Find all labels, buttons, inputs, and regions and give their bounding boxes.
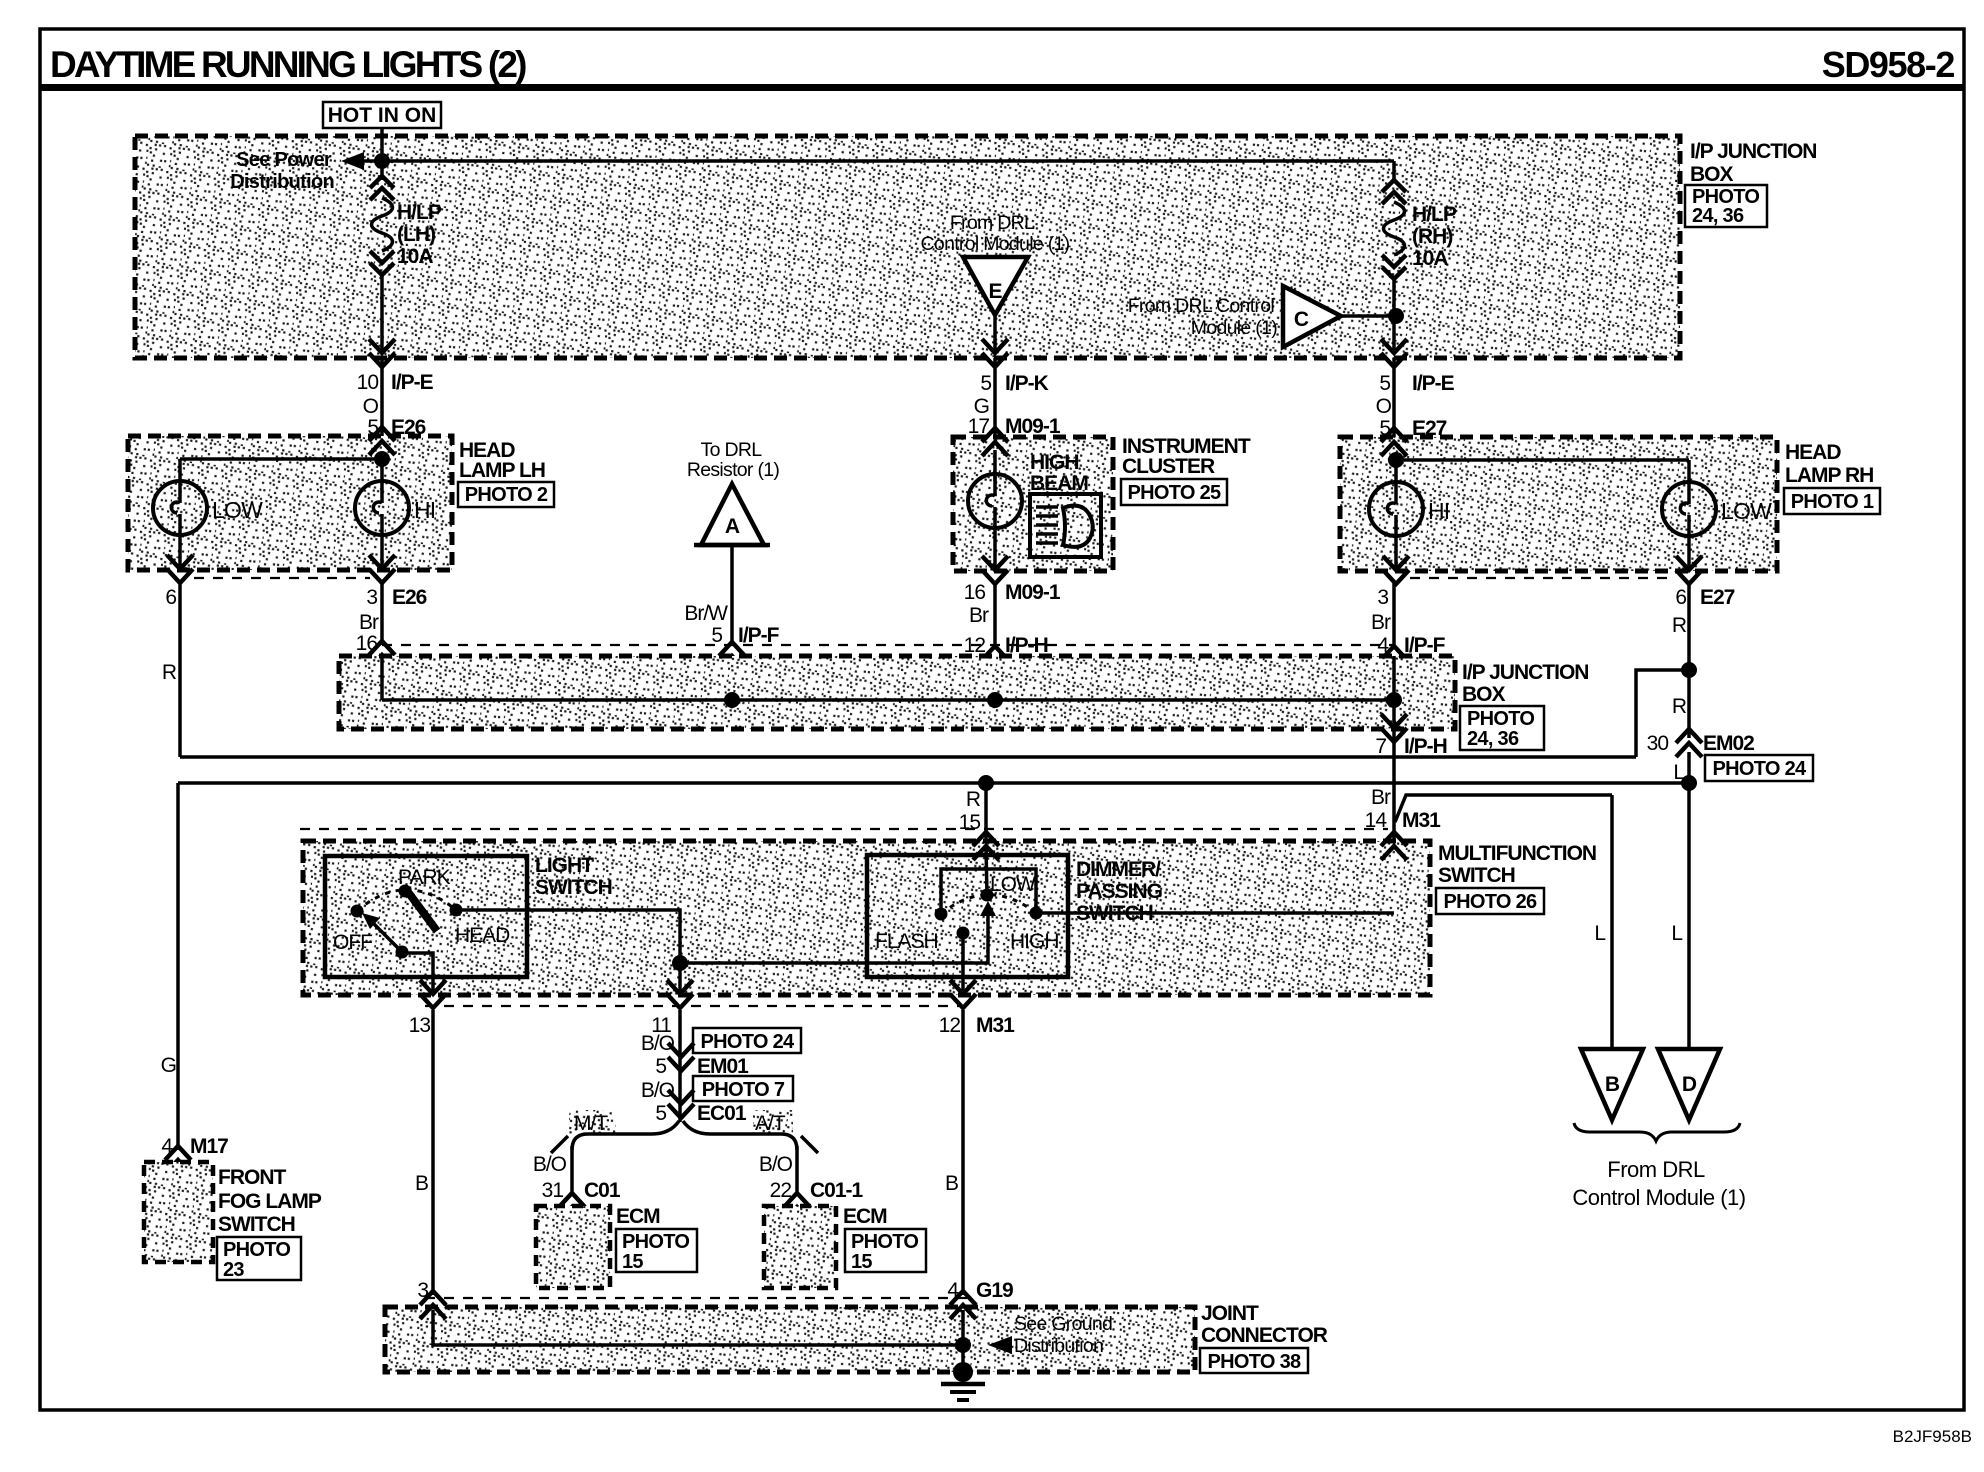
- svg-text:OFF: OFF: [333, 931, 372, 954]
- svg-text:LOW: LOW: [212, 497, 263, 523]
- svg-text:FOG LAMP: FOG LAMP: [218, 1190, 322, 1213]
- svg-text:Br: Br: [1371, 611, 1391, 634]
- svg-text:I/P-E: I/P-E: [391, 371, 434, 394]
- svg-text:B/O: B/O: [759, 1153, 793, 1176]
- svg-text:PHOTO 38: PHOTO 38: [1208, 1351, 1302, 1373]
- svg-text:M31: M31: [976, 1014, 1015, 1037]
- svg-text:HEAD: HEAD: [455, 924, 510, 947]
- svg-text:PASSING: PASSING: [1076, 880, 1163, 903]
- svg-text:(LH): (LH): [397, 223, 435, 246]
- svg-text:LIGHT: LIGHT: [535, 854, 594, 877]
- svg-text:5: 5: [980, 372, 991, 395]
- svg-text:PHOTO: PHOTO: [851, 1231, 918, 1253]
- svg-text:PHOTO 24: PHOTO 24: [1713, 758, 1808, 780]
- svg-text:Br: Br: [1371, 786, 1391, 809]
- svg-text:PARK: PARK: [398, 866, 451, 889]
- svg-text:30: 30: [1647, 732, 1669, 755]
- svg-text:24, 36: 24, 36: [1692, 205, 1744, 227]
- svg-text:EM02: EM02: [1703, 732, 1754, 755]
- svg-text:DIMMER/: DIMMER/: [1076, 858, 1161, 881]
- svg-text:PHOTO 25: PHOTO 25: [1128, 482, 1222, 504]
- svg-text:B2JF958B: B2JF958B: [1893, 1427, 1972, 1446]
- svg-text:BEAM: BEAM: [1030, 472, 1088, 495]
- svg-text:FLASH: FLASH: [875, 930, 938, 953]
- svg-text:Distribution: Distribution: [1014, 1335, 1103, 1357]
- svg-text:(RH): (RH): [1412, 225, 1452, 248]
- svg-text:PHOTO: PHOTO: [622, 1231, 689, 1253]
- svg-text:See Power: See Power: [236, 149, 332, 171]
- svg-text:SWITCH: SWITCH: [1438, 864, 1515, 887]
- svg-text:6: 6: [1675, 586, 1686, 609]
- svg-text:C: C: [1294, 308, 1309, 331]
- svg-text:G: G: [161, 1054, 176, 1077]
- svg-text:Control Module (1): Control Module (1): [1572, 1185, 1745, 1210]
- svg-text:PHOTO 26: PHOTO 26: [1444, 891, 1538, 913]
- svg-text:Br: Br: [359, 611, 379, 634]
- svg-text:I/P-H: I/P-H: [1404, 735, 1447, 758]
- svg-text:6: 6: [165, 586, 176, 609]
- svg-text:PHOTO: PHOTO: [1467, 708, 1534, 730]
- svg-text:From DRL: From DRL: [1607, 1157, 1705, 1182]
- svg-text:5: 5: [655, 1102, 666, 1125]
- svg-text:Module (1): Module (1): [1191, 317, 1277, 339]
- svg-text:M31: M31: [1402, 809, 1441, 832]
- svg-text:R: R: [966, 788, 981, 811]
- svg-text:24, 36: 24, 36: [1467, 728, 1519, 750]
- svg-text:M/T: M/T: [574, 1112, 608, 1135]
- svg-text:CONNECTOR: CONNECTOR: [1201, 1324, 1328, 1347]
- svg-text:R: R: [1672, 614, 1687, 637]
- svg-text:B: B: [945, 1172, 958, 1195]
- svg-text:H/LP: H/LP: [397, 201, 442, 224]
- svg-text:22: 22: [770, 1179, 792, 1202]
- svg-text:12: 12: [939, 1014, 961, 1037]
- svg-text:SWITCH: SWITCH: [535, 876, 612, 899]
- svg-text:B/O: B/O: [533, 1153, 567, 1176]
- svg-text:O: O: [363, 395, 379, 418]
- svg-text:ECM: ECM: [616, 1205, 660, 1228]
- svg-text:C01: C01: [584, 1179, 621, 1202]
- svg-text:3: 3: [1377, 586, 1388, 609]
- svg-text:ECM: ECM: [843, 1205, 887, 1228]
- svg-text:C01-1: C01-1: [810, 1179, 864, 1202]
- svg-text:SD958-2: SD958-2: [1822, 44, 1955, 85]
- svg-text:CLUSTER: CLUSTER: [1122, 455, 1215, 478]
- svg-text:B: B: [415, 1172, 428, 1195]
- svg-text:To DRL: To DRL: [701, 439, 763, 461]
- svg-text:BOX: BOX: [1462, 683, 1506, 706]
- svg-text:10A: 10A: [1412, 247, 1448, 270]
- svg-text:L: L: [1594, 922, 1605, 945]
- svg-text:B: B: [1605, 1073, 1620, 1096]
- svg-text:LAMP RH: LAMP RH: [1785, 464, 1873, 487]
- svg-text:PHOTO 1: PHOTO 1: [1791, 491, 1874, 513]
- svg-text:LAMP LH: LAMP LH: [459, 459, 545, 482]
- svg-text:HI: HI: [1428, 498, 1449, 524]
- svg-text:EC01: EC01: [697, 1102, 747, 1125]
- svg-text:E26: E26: [392, 586, 427, 609]
- svg-text:From DRL Control: From DRL Control: [1128, 295, 1275, 317]
- svg-text:D: D: [1682, 1073, 1697, 1096]
- svg-text:PHOTO 2: PHOTO 2: [465, 484, 548, 506]
- svg-text:23: 23: [223, 1259, 244, 1281]
- svg-text:13: 13: [409, 1014, 431, 1037]
- svg-text:L: L: [1671, 922, 1682, 945]
- svg-text:MULTIFUNCTION: MULTIFUNCTION: [1438, 842, 1596, 865]
- svg-text:A: A: [725, 515, 740, 538]
- svg-text:DAYTIME RUNNING LIGHTS (2): DAYTIME RUNNING LIGHTS (2): [50, 44, 526, 85]
- svg-text:HIGH: HIGH: [1010, 930, 1059, 953]
- svg-text:5: 5: [1379, 372, 1390, 395]
- svg-text:E: E: [988, 280, 1002, 303]
- svg-text:HOT IN ON: HOT IN ON: [328, 104, 437, 127]
- svg-text:31: 31: [542, 1179, 564, 1202]
- svg-text:I/P JUNCTION: I/P JUNCTION: [1462, 661, 1588, 684]
- svg-text:LOW: LOW: [1721, 498, 1772, 524]
- svg-text:3: 3: [366, 586, 377, 609]
- svg-text:G19: G19: [976, 1279, 1013, 1302]
- svg-text:15: 15: [851, 1251, 872, 1273]
- svg-text:7: 7: [1375, 735, 1386, 758]
- svg-text:Resistor (1): Resistor (1): [687, 459, 780, 481]
- svg-text:5: 5: [711, 624, 722, 647]
- svg-text:I/P JUNCTION: I/P JUNCTION: [1690, 140, 1816, 163]
- svg-text:I/P-E: I/P-E: [1412, 372, 1455, 395]
- svg-text:A/T: A/T: [755, 1112, 786, 1135]
- svg-text:EM01: EM01: [697, 1055, 749, 1078]
- svg-text:I/P-F: I/P-F: [738, 624, 780, 647]
- svg-text:PHOTO 24: PHOTO 24: [701, 1031, 796, 1053]
- svg-text:Control Module (1): Control Module (1): [921, 233, 1070, 255]
- svg-text:PHOTO 7: PHOTO 7: [702, 1079, 785, 1101]
- svg-text:15: 15: [622, 1251, 643, 1273]
- svg-text:SWITCH: SWITCH: [218, 1213, 295, 1236]
- svg-text:16: 16: [964, 581, 986, 604]
- svg-text:10A: 10A: [397, 245, 433, 268]
- svg-text:I/P-K: I/P-K: [1005, 372, 1049, 395]
- svg-text:H/LP: H/LP: [1412, 203, 1457, 226]
- svg-text:E27: E27: [1700, 586, 1735, 609]
- svg-text:HEAD: HEAD: [1785, 441, 1841, 464]
- svg-text:Br/W: Br/W: [684, 602, 728, 625]
- svg-text:10: 10: [357, 371, 379, 394]
- svg-text:FRONT: FRONT: [218, 1166, 286, 1189]
- svg-text:LOW: LOW: [990, 873, 1036, 896]
- svg-text:BOX: BOX: [1690, 163, 1734, 186]
- svg-text:From DRL: From DRL: [950, 212, 1035, 234]
- svg-text:O: O: [1376, 395, 1392, 418]
- svg-text:JOINT: JOINT: [1201, 1302, 1259, 1325]
- svg-text:5: 5: [655, 1055, 666, 1078]
- svg-text:PHOTO: PHOTO: [223, 1239, 290, 1261]
- svg-text:Br: Br: [969, 604, 989, 627]
- svg-text:R: R: [162, 661, 177, 684]
- svg-text:M09-1: M09-1: [1005, 581, 1061, 604]
- svg-text:HI: HI: [414, 497, 435, 523]
- svg-text:See Ground: See Ground: [1014, 1313, 1112, 1335]
- svg-text:HIGH: HIGH: [1030, 451, 1079, 474]
- svg-text:Distribution: Distribution: [230, 171, 334, 193]
- svg-text:M17: M17: [190, 1135, 228, 1158]
- svg-text:15: 15: [959, 811, 981, 834]
- svg-text:R: R: [1672, 695, 1687, 718]
